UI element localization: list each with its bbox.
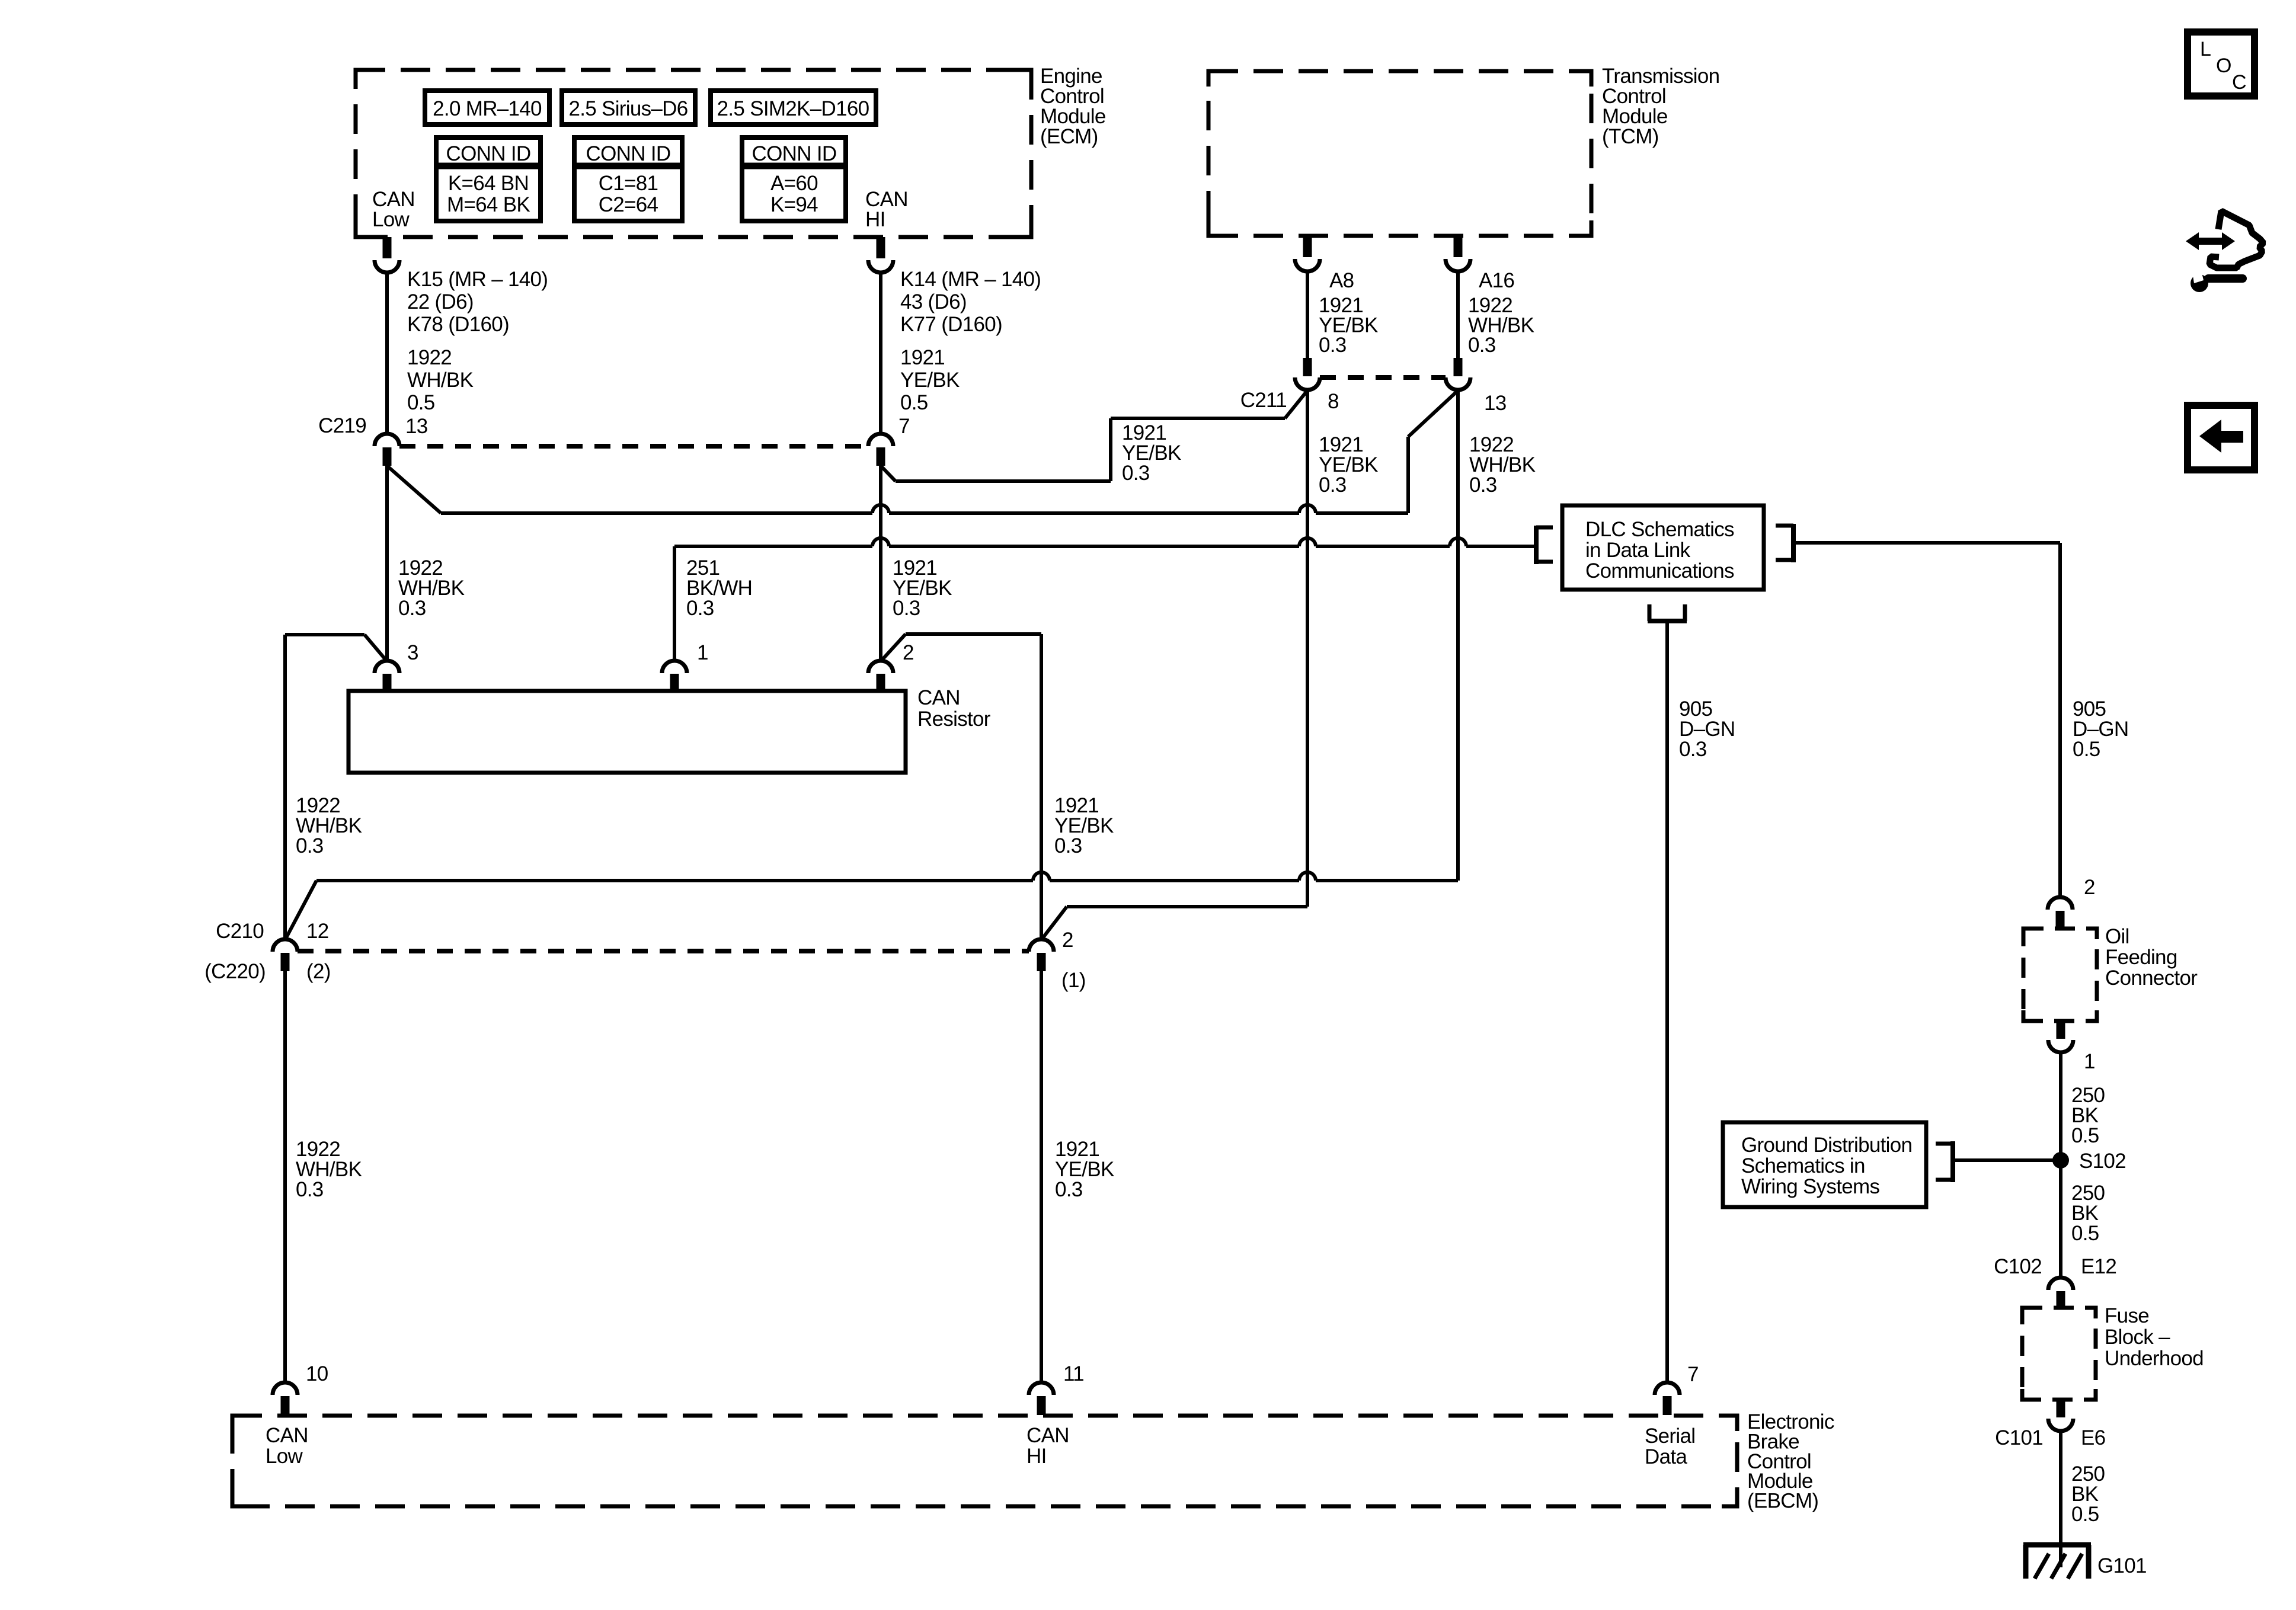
ECM CAN Low pin label xyxy=(372,188,415,231)
wire 250 BK C101 to G101 xyxy=(2059,1431,2062,1567)
ECM label 2.0 MR-140 box xyxy=(425,91,549,124)
svg-text:CONN ID: CONN ID xyxy=(586,142,671,165)
label 1922 WH/BK 0.3 left column xyxy=(296,794,362,857)
svg-text:0.3: 0.3 xyxy=(1319,473,1347,497)
svg-text:0.3: 0.3 xyxy=(1679,738,1707,761)
wire 1922 TCM A16 to C211-13 xyxy=(1456,271,1460,359)
svg-text:1922: 1922 xyxy=(407,346,452,369)
svg-text:(1): (1) xyxy=(1061,969,1086,992)
svg-text:7: 7 xyxy=(1687,1363,1699,1386)
label C101 xyxy=(1995,1426,2043,1449)
Ground Distribution bracket xyxy=(1936,1141,1953,1182)
svg-text:DLC Schematics: DLC Schematics xyxy=(1585,518,1734,541)
ECM pin CAN HI connector xyxy=(868,237,893,273)
EBCM pin 11 connector xyxy=(1029,1382,1054,1415)
svg-text:L: L xyxy=(2200,38,2211,60)
wire 1922 C211-13 down xyxy=(1456,390,1460,881)
svg-text:Serial: Serial xyxy=(1645,1425,1695,1448)
svg-text:0.5: 0.5 xyxy=(2071,1222,2099,1245)
svg-text:(ECM): (ECM) xyxy=(1040,125,1098,148)
svg-text:12: 12 xyxy=(306,920,329,943)
LOC reference box xyxy=(2188,32,2255,96)
svg-text:13: 13 xyxy=(1484,392,1507,415)
svg-text:0.5: 0.5 xyxy=(2073,738,2100,761)
label EBCM pin 10 xyxy=(306,1362,328,1385)
svg-text:0.5: 0.5 xyxy=(900,391,928,414)
svg-text:Ground Distribution: Ground Distribution xyxy=(1741,1134,1912,1157)
svg-text:(2): (2) xyxy=(306,960,331,983)
svg-text:WH/BK: WH/BK xyxy=(407,369,474,392)
label 250 BK 0.5 upper xyxy=(2071,1084,2105,1147)
svg-text:K78 (D160): K78 (D160) xyxy=(407,313,509,336)
label 250 BK 0.5 middle xyxy=(2071,1182,2105,1245)
svg-text:Communications: Communications xyxy=(1585,559,1734,582)
ECM pin CAN Low connector xyxy=(375,237,399,273)
connector C211 pin 8 xyxy=(1295,358,1320,390)
wire 1921 corner horizontal xyxy=(906,632,1041,636)
EBCM title text xyxy=(1747,1410,1834,1513)
svg-text:13: 13 xyxy=(405,415,428,438)
svg-text:0.3: 0.3 xyxy=(398,597,426,620)
svg-text:0.3: 0.3 xyxy=(1054,834,1082,857)
svg-text:CAN: CAN xyxy=(266,1424,308,1447)
svg-text:2.0 MR–140: 2.0 MR–140 xyxy=(433,97,542,120)
pin label A16 xyxy=(1479,269,1514,292)
svg-text:Block –: Block – xyxy=(2105,1326,2170,1349)
label 1921 YE/BK 0.3 below C211-8 xyxy=(1319,433,1378,497)
Engine Control Module (ECM) dashed box xyxy=(356,70,1031,237)
label resistor pin 3 xyxy=(407,641,418,664)
svg-text:Connector: Connector xyxy=(2105,966,2198,990)
svg-text:Low: Low xyxy=(266,1445,303,1468)
svg-text:K=64 BN: K=64 BN xyxy=(448,172,529,195)
svg-text:3: 3 xyxy=(407,641,418,664)
DLC Schematics box xyxy=(1562,505,1764,590)
svg-text:2: 2 xyxy=(903,641,914,664)
CONN ID table 1 (K=64 BN / M=64 BK) xyxy=(436,137,541,221)
label C220 pin 2 xyxy=(306,960,331,983)
connector C219 pin 7 xyxy=(868,434,893,466)
CAN resistor title xyxy=(917,686,991,731)
wire 1921 right column down xyxy=(1040,634,1043,940)
svg-text:CONN ID: CONN ID xyxy=(752,142,837,165)
Fuse Block text xyxy=(2105,1304,2204,1370)
wire 251 resistor pin 1 riser xyxy=(673,546,676,661)
label C211 xyxy=(1240,389,1287,412)
label C211 pin 13 xyxy=(1484,392,1507,415)
svg-text:O: O xyxy=(2216,55,2231,77)
wire 1922 diagonal to C210-12 xyxy=(285,881,316,940)
Oil Feeding Connector dashed box xyxy=(2023,929,2097,1021)
label 1922 WH/BK 0.3 below C211-13 xyxy=(1469,433,1536,497)
label C219 pin 7 xyxy=(898,415,910,438)
label resistor pin 1 xyxy=(697,641,708,664)
DLC right bracket xyxy=(1776,524,1793,562)
svg-text:Wiring Systems: Wiring Systems xyxy=(1741,1175,1879,1198)
wire 250 BK S102 to C102 xyxy=(2059,1160,2062,1278)
svg-text:8: 8 xyxy=(1328,390,1339,413)
svg-text:Resistor: Resistor xyxy=(917,708,991,731)
label C102 xyxy=(1994,1255,2042,1278)
svg-text:K=94: K=94 xyxy=(770,193,818,216)
svg-text:0.5: 0.5 xyxy=(2071,1503,2099,1526)
svg-text:(C220): (C220) xyxy=(204,960,266,983)
EBCM pin 7 connector xyxy=(1655,1382,1680,1415)
resistor pin 3 connector xyxy=(375,661,399,692)
label C220 xyxy=(204,960,266,983)
svg-text:0.3: 0.3 xyxy=(1469,473,1497,497)
EBCM Serial Data label xyxy=(1645,1425,1695,1468)
wire 1922 branch diagonal xyxy=(387,466,441,513)
svg-text:1921: 1921 xyxy=(900,346,945,369)
label EBCM pin 11 xyxy=(1063,1362,1084,1385)
resistor pin 2 connector xyxy=(868,661,893,692)
svg-text:S102: S102 xyxy=(2079,1150,2126,1173)
wire 1922 branch diagonal to C211-13 xyxy=(1408,391,1458,437)
label 1921 YE/BK 0.5 xyxy=(900,346,960,414)
connector oil feeding pin 2 xyxy=(2048,897,2073,929)
back arrow box xyxy=(2188,405,2255,470)
label S102 xyxy=(2079,1150,2126,1173)
svg-text:7: 7 xyxy=(898,415,910,438)
Oil Feeding Connector text xyxy=(2105,925,2198,990)
svg-text:(EBCM): (EBCM) xyxy=(1747,1490,1818,1513)
svg-text:43 (D6): 43 (D6) xyxy=(900,290,967,313)
wire 1921 branch diagonal xyxy=(881,466,896,481)
label E6 xyxy=(2081,1426,2105,1449)
connector C210 pin 2 xyxy=(1029,939,1054,971)
svg-text:C101: C101 xyxy=(1995,1426,2043,1449)
wire 1921 TCM A8 to C211-8 xyxy=(1306,271,1309,359)
svg-text:10: 10 xyxy=(306,1362,328,1385)
svg-text:C219: C219 xyxy=(318,414,366,437)
wire 251 horizontal to DLC xyxy=(674,538,1536,546)
svg-text:0.3: 0.3 xyxy=(893,597,920,620)
label 1921 YE/BK 0.3 riser xyxy=(1122,421,1181,485)
label C210 xyxy=(216,920,264,943)
label resistor pin 2 xyxy=(903,641,914,664)
wire 1922 corner horizontal xyxy=(285,633,364,636)
label C219 xyxy=(318,414,366,437)
Ground Distribution box xyxy=(1723,1122,1926,1207)
label C220 pin 1 xyxy=(1061,969,1086,992)
label 905 D-GN 0.5 xyxy=(2073,697,2128,761)
svg-text:E6: E6 xyxy=(2081,1426,2105,1449)
svg-text:2: 2 xyxy=(2084,876,2095,899)
connector C219 pin 13 xyxy=(375,434,399,466)
wire 1921 ECM CAN HI to C219-7 xyxy=(879,273,882,434)
svg-text:CONN ID: CONN ID xyxy=(446,142,531,165)
pin label A8 xyxy=(1329,269,1354,292)
wire 1922 C219-13 to CAN resistor pin 3 xyxy=(385,466,389,661)
svg-text:1: 1 xyxy=(2084,1050,2095,1073)
label oil feeding pin 2 xyxy=(2084,876,2095,899)
wire 1922 branch horizontal to C211-13 xyxy=(441,505,1408,513)
label 251 BK/WH 0.3 xyxy=(686,556,752,620)
svg-text:C211: C211 xyxy=(1240,389,1287,412)
EBCM CAN HI label xyxy=(1027,1424,1069,1468)
svg-text:(TCM): (TCM) xyxy=(1602,125,1659,148)
svg-text:C2=64: C2=64 xyxy=(599,193,658,216)
svg-text:2: 2 xyxy=(1062,929,1073,952)
EBCM pin 10 connector xyxy=(273,1382,298,1415)
svg-text:Underhood: Underhood xyxy=(2105,1347,2204,1370)
wire 1921 C219-7 to CAN resistor pin 2 xyxy=(879,466,882,661)
connector oil feeding pin 1 xyxy=(2048,1021,2073,1052)
ground G101 symbol xyxy=(2023,1545,2091,1579)
svg-text:22 (D6): 22 (D6) xyxy=(407,290,474,313)
ECM CAN HI pin label xyxy=(865,188,908,231)
wire 1922 left column down xyxy=(283,635,287,940)
label 905 D-GN 0.3 xyxy=(1679,697,1735,761)
label G101 xyxy=(2097,1554,2147,1577)
label C211 pin 8 xyxy=(1328,390,1339,413)
label 1921 YE/BK 0.3 right column xyxy=(1054,794,1114,857)
label 250 BK 0.5 lower xyxy=(2071,1462,2105,1526)
label C219 pin 13 xyxy=(405,415,428,438)
wire 1922 branch vertical riser xyxy=(1406,437,1410,513)
svg-text:HI: HI xyxy=(865,208,885,231)
svg-text:C1=81: C1=81 xyxy=(599,172,658,195)
connector C101-E6 xyxy=(2048,1400,2073,1431)
label K15 wire pins xyxy=(407,268,548,336)
svg-text:11: 11 xyxy=(1063,1362,1084,1385)
wire 1921 C211-8 down xyxy=(1306,390,1309,907)
Ground Distribution text xyxy=(1741,1134,1912,1198)
svg-text:M=64 BK: M=64 BK xyxy=(447,193,530,216)
diagnostic icon vehicle outline xyxy=(2209,211,2263,268)
DLC left bracket xyxy=(1536,526,1553,564)
svg-text:K77 (D160): K77 (D160) xyxy=(900,313,1002,336)
CONN ID table 2 (C1=81 / C2=64) xyxy=(574,137,682,221)
TCM title text xyxy=(1602,65,1719,148)
svg-text:0.3: 0.3 xyxy=(1468,334,1496,357)
wire 1921 C210-2 to EBCM-11 xyxy=(1040,971,1043,1382)
wire 1922 horizontal to C210-12 xyxy=(316,872,1458,881)
wire 250 BK oil-1 to S102 xyxy=(2059,1052,2062,1160)
svg-text:YE/BK: YE/BK xyxy=(900,369,960,392)
ECM title text xyxy=(1040,65,1106,148)
CONN ID table 3 (A=60 / K=94) xyxy=(742,137,846,221)
svg-text:C102: C102 xyxy=(1994,1255,2042,1278)
wire 1922 ECM CAN Low to C219-13 xyxy=(385,273,389,434)
svg-text:A16: A16 xyxy=(1479,269,1514,292)
svg-text:Fuse: Fuse xyxy=(2105,1304,2149,1327)
wire 1921 diagonal to C210-2 xyxy=(1041,907,1067,940)
svg-text:1: 1 xyxy=(697,641,708,664)
splice S102 xyxy=(2052,1152,2069,1169)
label C210 pin 2 xyxy=(1062,929,1073,952)
label 1922 WH/BK 0.3 left wire xyxy=(398,556,465,620)
svg-text:0.5: 0.5 xyxy=(2071,1124,2099,1147)
svg-text:0.5: 0.5 xyxy=(407,391,435,414)
wire 905 down to oil feeding connector xyxy=(2058,543,2062,897)
Electronic Brake Control Module (EBCM) dashed box xyxy=(232,1416,1737,1506)
svg-text:E12: E12 xyxy=(2081,1255,2116,1278)
connector C210 pin 12 xyxy=(273,939,298,971)
svg-text:0.3: 0.3 xyxy=(296,1178,324,1201)
svg-text:CAN: CAN xyxy=(1027,1424,1069,1447)
svg-text:C: C xyxy=(2232,71,2246,94)
TCM pin A8 connector xyxy=(1295,236,1320,271)
diagnostic icon wrench xyxy=(2191,263,2243,292)
DLC text xyxy=(1585,518,1734,582)
label 1921 YE/BK 0.3 mid wire xyxy=(893,556,952,620)
wire 1921 horizontal to C210-2 xyxy=(1067,905,1307,908)
TCM pin A16 connector xyxy=(1446,236,1470,271)
Transmission Control Module (TCM) dashed box xyxy=(1208,71,1591,236)
C211 dashed connector line xyxy=(1320,375,1446,380)
ECM label 2.5 Sirius-D6 box xyxy=(562,91,695,124)
label 1921 YE/BK 0.3 to EBCM xyxy=(1055,1138,1114,1201)
wire 1922 C210-12 to EBCM-10 xyxy=(283,971,287,1382)
svg-text:Schematics in: Schematics in xyxy=(1741,1154,1865,1177)
Fuse Block Underhood dashed box xyxy=(2022,1308,2096,1400)
label 1922 WH/BK 0.3 A16 xyxy=(1468,294,1534,357)
svg-text:C210: C210 xyxy=(216,920,264,943)
label K14 wire pins xyxy=(900,268,1041,336)
ECM label 2.5 SIM2K-D160 box xyxy=(711,91,876,124)
wire 1922 corner diagonal to pin 3 xyxy=(364,635,387,661)
EBCM CAN Low label xyxy=(266,1424,308,1468)
svg-text:0.3: 0.3 xyxy=(686,597,714,620)
connector C211 pin 13 xyxy=(1446,358,1470,390)
label oil feeding pin 1 xyxy=(2084,1050,2095,1073)
svg-text:2.5 SIM2K–D160: 2.5 SIM2K–D160 xyxy=(717,97,869,120)
C219 dashed connector line xyxy=(399,444,868,449)
svg-text:2.5 Sirius–D6: 2.5 Sirius–D6 xyxy=(568,97,687,120)
label E12 xyxy=(2081,1255,2116,1278)
label 1922 WH/BK 0.5 xyxy=(407,346,474,414)
resistor pin 1 connector xyxy=(662,661,687,692)
svg-text:0.3: 0.3 xyxy=(1319,334,1347,357)
svg-text:in Data Link: in Data Link xyxy=(1585,539,1691,562)
connector C102-E12 xyxy=(2048,1278,2073,1309)
DLC bottom bracket xyxy=(1648,604,1687,621)
wire 1921 branch vertical riser xyxy=(1109,418,1112,481)
svg-text:K14 (MR – 140): K14 (MR – 140) xyxy=(900,268,1041,291)
svg-text:K15 (MR – 140): K15 (MR – 140) xyxy=(407,268,548,291)
wire 1921 branch horizontal upper xyxy=(1111,417,1285,420)
wire 1921 branch diagonal to C211-8 xyxy=(1285,391,1307,418)
svg-text:HI: HI xyxy=(1027,1445,1047,1468)
svg-text:Feeding: Feeding xyxy=(2105,946,2177,969)
svg-text:CAN: CAN xyxy=(917,686,960,709)
svg-text:0.3: 0.3 xyxy=(1055,1178,1083,1201)
wire 905 DLC right horizontal xyxy=(1793,541,2060,545)
label 1922 WH/BK 0.3 to EBCM xyxy=(296,1138,362,1201)
C210 dashed connector line xyxy=(298,949,1029,953)
svg-text:0.3: 0.3 xyxy=(1122,462,1150,485)
label 1921 YE/BK 0.3 A8 xyxy=(1319,294,1378,357)
wire 1921 diagonal from pin 2 xyxy=(881,634,906,661)
svg-text:A8: A8 xyxy=(1329,269,1354,292)
label C210 pin 12 xyxy=(306,920,329,943)
wire 1921 branch horizontal xyxy=(896,479,1111,483)
svg-text:Data: Data xyxy=(1645,1445,1687,1468)
svg-text:A=60: A=60 xyxy=(770,172,818,195)
wire 905 serial data DLC to EBCM-7 xyxy=(1665,623,1669,1382)
svg-text:Oil: Oil xyxy=(2105,925,2129,948)
wire ground distribution to S102 xyxy=(1953,1158,2061,1162)
svg-text:Low: Low xyxy=(372,208,410,231)
diagnostic icon double arrow xyxy=(2186,232,2235,250)
label EBCM pin 7 xyxy=(1687,1363,1699,1386)
CAN resistor box xyxy=(348,691,906,773)
svg-text:G101: G101 xyxy=(2097,1554,2147,1577)
svg-text:0.3: 0.3 xyxy=(296,834,324,857)
